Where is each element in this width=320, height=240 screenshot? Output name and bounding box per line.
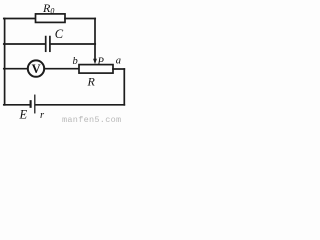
wire bottom segment left (battery to left rail) bbox=[4, 104, 31, 106]
wire top segment left (left rail to R0) bbox=[4, 18, 36, 20]
wire capacitor branch left bbox=[4, 43, 45, 45]
capacitor C plates bbox=[45, 37, 47, 52]
wire capacitor branch right bbox=[51, 43, 95, 45]
wiper P arrow head bbox=[93, 59, 97, 64]
voltmeter U1 circle bbox=[28, 60, 44, 76]
wire bottom segment right (right rail to battery) bbox=[35, 104, 124, 106]
svg-text:E: E bbox=[19, 108, 28, 122]
svg-text:a: a bbox=[116, 56, 121, 67]
svg-text:C: C bbox=[55, 27, 64, 41]
battery E positive plate (long) bbox=[34, 95, 36, 113]
svg-text:V: V bbox=[32, 62, 41, 76]
svg-text:manfen5.com: manfen5.com bbox=[62, 115, 121, 124]
rheostat R body bbox=[79, 65, 113, 74]
battery E negative plate (short) bbox=[30, 101, 32, 107]
svg-text:R: R bbox=[87, 75, 96, 89]
svg-text:b: b bbox=[73, 56, 78, 67]
svg-text:P: P bbox=[97, 57, 105, 68]
wire voltmeter to rheostat terminal b bbox=[44, 68, 79, 70]
wire right rail bbox=[123, 69, 125, 105]
resistor R0 bbox=[36, 14, 66, 23]
wire rheostat terminal a to right rail bbox=[113, 68, 124, 70]
wire voltmeter branch left bbox=[4, 68, 28, 70]
wire wiper feed vertical bbox=[94, 19, 96, 60]
wire top segment right (R0 to top-right corner) bbox=[65, 18, 95, 20]
wire left rail bbox=[4, 19, 6, 105]
